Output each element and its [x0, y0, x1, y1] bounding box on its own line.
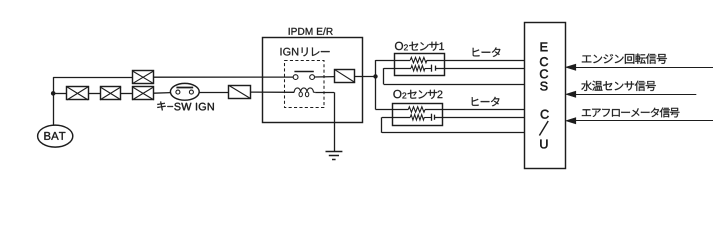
wire sensor1 return leg: [384, 68, 525, 84]
wire junction riser: [53, 77, 55, 93]
wire sensor1 cell to ECCS: [435, 68, 524, 70]
sensor2 cell element: [424, 114, 434, 121]
sensor1 cell element: [425, 65, 436, 72]
wire lower feed segment 4: [154, 92, 171, 95]
battery BAT: [38, 125, 73, 147]
label ECCS C/U: [539, 43, 548, 149]
wire contact to fuse: [315, 76, 336, 78]
label O2 sensor 1: [395, 42, 444, 51]
label IPDM E/R: [289, 28, 333, 35]
wire upper feed segment 1: [53, 77, 132, 79]
ECCS C/U box: [525, 23, 566, 169]
key switch SW IGN: [170, 83, 199, 100]
label heater sensor2: [472, 97, 500, 107]
wire sensor2 return leg: [382, 117, 525, 133]
wire sensor2 heater to ECCS: [425, 109, 525, 111]
fusible link F2: [100, 87, 121, 100]
label heater sensor1: [473, 47, 501, 57]
signal arrow water temp sensor: [566, 81, 697, 98]
fuse F4 upper: [132, 71, 154, 84]
relay coil: [293, 88, 315, 97]
heater resistor sensor2: [408, 107, 425, 112]
signal arrow air flow meter: [566, 108, 713, 124]
signal arrow engine speed: [566, 54, 713, 71]
ground: [326, 152, 343, 160]
fuse after key switch: [229, 86, 251, 99]
wire sensor2 heater feed: [376, 109, 409, 111]
wire lower feed segment 1: [53, 93, 67, 95]
wire fuse to junction: [355, 76, 376, 78]
wire junction vertical: [375, 60, 377, 109]
wire sensor1 cell left: [384, 68, 411, 70]
wire sensor1 heater feed: [376, 60, 411, 62]
wire upper feed segment 2: [154, 76, 293, 78]
fusible link F3: [132, 87, 154, 100]
wire lower feed segment 3: [121, 93, 132, 95]
wire sensor2 cell left: [382, 117, 410, 119]
label key switch: [157, 102, 214, 111]
fusible link F1: [67, 87, 89, 100]
wire coil to ground corner: [315, 92, 334, 151]
relay contact: [293, 72, 314, 80]
O2 sensor 2 box: [393, 104, 443, 126]
node relay output junction: [373, 74, 377, 78]
heater resistor sensor1: [410, 57, 427, 62]
IGN relay dashed box: [285, 61, 325, 108]
label O2 sensor 2: [393, 90, 442, 99]
cell resistor sensor2: [410, 115, 424, 120]
wire fuse to IPDM coil: [251, 91, 295, 93]
wire lower feed segment 2: [88, 93, 100, 95]
label IGN relay: [281, 48, 330, 57]
IPDM E/R box: [263, 38, 363, 123]
cell resistor sensor1: [411, 66, 425, 71]
wire sensor2 cell to ECCS: [435, 117, 525, 119]
wire sensor1 heater to ECCS: [427, 60, 525, 62]
wire BAT to junction: [53, 93, 55, 125]
node battery junction: [51, 91, 56, 96]
wire key switch to fuse: [199, 92, 229, 94]
O2 sensor 1 box: [395, 54, 445, 76]
fuse in IPDM: [335, 70, 356, 83]
